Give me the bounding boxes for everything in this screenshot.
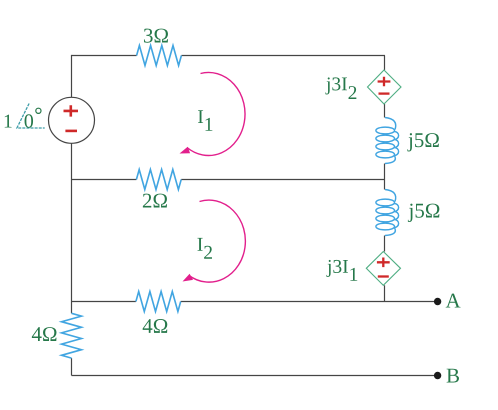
wire: middle horizontal (left segment) (72, 179, 137, 181)
wire: top horizontal (right segment) (181, 55, 385, 57)
resistor 4ohm horizontal zigzag (136, 292, 181, 312)
dependent source j3I1 minus sign (378, 275, 389, 277)
label 2ohm (143, 194, 167, 208)
label 4ohm vertical (32, 327, 57, 341)
wire: bottom horizontal (to terminal B) (72, 375, 438, 377)
wire: left vertical (4ohm resistor to bottom wire) (71, 358, 73, 375)
wire: left vertical (top: corner to source) (71, 55, 73, 98)
label 4ohm horizontal (143, 319, 168, 333)
label 1 angle 0 deg: digit 1 (5, 115, 12, 128)
wire: right vertical (source j3I1 to A-wire) (384, 285, 386, 301)
mesh current I2 arrow arc (189, 200, 245, 282)
dependent source j3I1 diamond (366, 252, 400, 286)
label j3I2 (325, 77, 356, 99)
label I1 (198, 110, 212, 131)
inductor j5ohm (top) coil (376, 118, 399, 164)
wire: right vertical (inductor 1 to middle wire) (384, 164, 386, 180)
voltage source V1 minus sign (65, 130, 77, 133)
label j5ohm bottom (408, 204, 439, 222)
wire: right vertical (inductor 2 to source j3I1) (384, 236, 386, 252)
voltage source V1 plus sign (64, 105, 79, 116)
wire: left vertical (A-wire to 4ohm resistor) (71, 302, 73, 314)
wire: A horizontal (right segment to terminal A) (181, 301, 438, 303)
resistor 3ohm zigzag (137, 46, 182, 66)
label A (446, 294, 461, 308)
mesh current I2 arrowhead (183, 274, 194, 282)
terminal A node dot (434, 298, 441, 305)
wire: right vertical (source j3I2 to inductor 1) (384, 104, 386, 118)
wire: right vertical (middle wire to inductor 2) (384, 180, 386, 190)
resistor 4ohm vertical zigzag (62, 313, 82, 358)
terminal B node dot (434, 372, 441, 379)
label j3I1 (326, 260, 357, 281)
label I2 (198, 238, 212, 259)
dependent source j3I2 diamond (368, 70, 402, 104)
wire: A horizontal (left segment) (72, 301, 136, 303)
mesh current I1 arrow arc (187, 72, 245, 155)
inductor j5ohm (bottom) coil (376, 190, 399, 236)
wire: middle horizontal (right segment) (181, 179, 385, 181)
wire: top horizontal (left segment) (72, 55, 137, 57)
label 1 angle 0 deg : angle symbol (17, 104, 45, 129)
wire: left vertical (middle wire to A-wire) (71, 180, 73, 302)
mesh current I1 arrowhead (180, 147, 191, 154)
dependent source j3I1 plus sign (377, 258, 390, 268)
label 1 angle 0 deg : degree circle (36, 108, 41, 113)
wire: right vertical (top wire to source j3I2) (384, 56, 386, 71)
wire: left vertical (source to middle wire) (71, 143, 73, 179)
resistor 2ohm zigzag (136, 170, 181, 190)
label 3ohm (144, 29, 168, 43)
dependent source j3I2 minus sign (379, 92, 390, 94)
dependent source j3I2 plus sign (378, 77, 391, 87)
voltage source V1 circle (49, 97, 95, 143)
label j5ohm top (407, 133, 438, 151)
label 1 angle 0 deg: digit 0 (25, 114, 33, 128)
label B (447, 369, 459, 383)
